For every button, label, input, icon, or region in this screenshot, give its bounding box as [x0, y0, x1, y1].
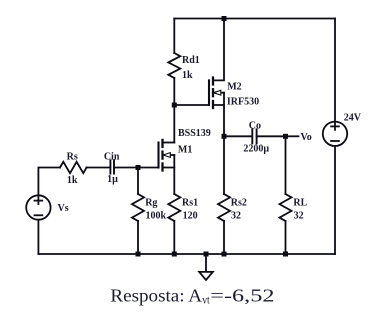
wire Rd1 bottom lead — [173, 78, 175, 105]
wire M1 drain up to node — [173, 105, 175, 143]
svg-text:24V: 24V — [344, 112, 362, 123]
resistor Rs1 with leads — [168, 194, 180, 221]
svg-text:M1: M1 — [178, 144, 192, 155]
wire 24V bottom — [334, 146, 336, 254]
svg-text:2200µ: 2200µ — [243, 144, 269, 155]
svg-text:Rd1: Rd1 — [182, 55, 200, 66]
wire Vo stub — [286, 135, 299, 137]
node Rd1/M1 drain/M2 gate — [172, 103, 177, 108]
svg-text:vt: vt — [202, 293, 210, 307]
M1 source lead — [163, 168, 175, 195]
svg-text:Cin: Cin — [104, 151, 120, 162]
svg-text:BSS139: BSS139 — [178, 128, 211, 139]
resistor Rg with leads — [137, 168, 139, 195]
wire Vs bottom — [37, 220, 39, 254]
M2 source lead — [213, 105, 224, 136]
resistor Rs2 with leads — [223, 136, 225, 194]
junction RL/rail — [283, 252, 288, 257]
junction Rg/rail — [136, 252, 141, 257]
wire Co right lead — [257, 135, 286, 137]
wire bottom rail — [38, 253, 335, 255]
svg-text:32: 32 — [294, 211, 304, 222]
junction top rail / M2 drain — [222, 16, 227, 21]
svg-text:Rs: Rs — [67, 151, 78, 162]
capacitor Co — [252, 129, 256, 143]
source 24V — [323, 122, 347, 146]
M1 body arrow — [163, 154, 175, 156]
svg-text:32: 32 — [231, 211, 241, 222]
ground — [204, 252, 209, 257]
svg-text:Vs: Vs — [58, 203, 69, 214]
resistor RL with leads — [285, 136, 287, 194]
source Vs — [26, 195, 50, 219]
junction Rs1/rail — [172, 252, 177, 257]
wire M2 gate lead — [174, 104, 209, 106]
wire Rd1 top lead — [173, 19, 175, 54]
M2 drain lead — [213, 19, 224, 81]
svg-text:Resposta: A: Resposta: A — [110, 286, 202, 306]
resistor Rd1 — [168, 53, 180, 78]
svg-text:IRF530: IRF530 — [227, 97, 259, 108]
svg-text:RL: RL — [293, 198, 307, 209]
node Cin/M1 gate/Rg — [136, 165, 141, 170]
resistor Rs — [60, 162, 87, 173]
wire Vs top to Rs — [38, 168, 60, 196]
wire top rail — [174, 18, 335, 20]
node Vo — [283, 134, 288, 139]
wire M2 source to Co node handled above; node M2 source/Co/Rs2 — [222, 134, 227, 139]
transistor M2 — [209, 78, 213, 109]
svg-text:Rs2: Rs2 — [231, 198, 247, 209]
wire Cin to gate node — [114, 167, 138, 169]
svg-text:=-6,52: =-6,52 — [210, 286, 274, 306]
svg-text:1k: 1k — [182, 70, 193, 81]
M2 body arrow — [213, 92, 224, 94]
svg-text:1µ: 1µ — [107, 174, 118, 185]
svg-text:120: 120 — [183, 211, 198, 222]
svg-text:Co: Co — [249, 121, 261, 132]
svg-text:Vo: Vo — [301, 132, 312, 143]
svg-text:M2: M2 — [227, 82, 241, 93]
wire Co left lead — [224, 135, 252, 137]
M1 drain lead — [163, 142, 175, 144]
svg-text:Rg: Rg — [145, 198, 157, 209]
svg-text:1k: 1k — [67, 175, 78, 186]
wire 24V top — [334, 19, 336, 122]
wire from Rs to Cin — [87, 167, 111, 169]
svg-text:100k: 100k — [146, 211, 167, 222]
junction Rs2/rail — [222, 252, 227, 257]
capacitor Cin — [110, 160, 114, 173]
wire M1 gate lead — [138, 167, 159, 169]
svg-text:Rs1: Rs1 — [182, 198, 198, 209]
transistor M1 — [159, 140, 163, 171]
